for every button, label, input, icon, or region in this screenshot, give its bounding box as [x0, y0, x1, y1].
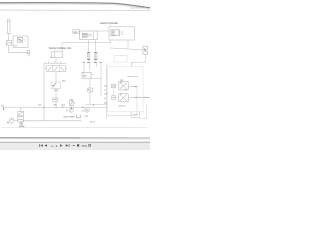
valve 1V3	[47, 66, 66, 72]
page top edge shadow	[0, 3, 150, 8]
clamp cylinder 1A2	[80, 31, 98, 40]
valve 0V1	[6, 41, 11, 46]
svg-text:1V5 12: 1V5 12	[119, 106, 127, 108]
wire	[89, 63, 91, 70]
swing cylinder 1A1	[52, 52, 63, 58]
wire	[110, 48, 144, 50]
pump 0P2	[10, 118, 15, 123]
svg-text:Swing unit: Swing unit	[127, 75, 137, 78]
label box 1A2	[73, 30, 79, 34]
svg-text:Drive advance: Drive advance	[137, 96, 150, 99]
junction dot	[93, 104, 94, 105]
wire	[145, 54, 147, 62]
junction dot	[70, 111, 71, 112]
motor 0M1	[85, 108, 90, 113]
check valve 1V8	[88, 40, 90, 63]
valve 1V2	[51, 82, 61, 89]
label box 1Z2	[114, 56, 127, 63]
svg-text:0M1 PUMP: 0M1 PUMP	[64, 116, 76, 118]
wire	[110, 40, 112, 43]
svg-text:0T1 b: 0T1 b	[90, 122, 96, 124]
svg-text:1V0: 1V0	[104, 94, 107, 96]
valve 1V5a	[119, 82, 128, 90]
wire	[100, 63, 102, 96]
svg-text:a1: a1	[104, 90, 106, 92]
svg-text:Swing Cylinder 1A1: Swing Cylinder 1A1	[49, 46, 72, 50]
wire	[55, 89, 57, 99]
tick at line start	[2, 108, 4, 111]
svg-text:75%: 75%	[81, 144, 87, 148]
port dashes	[82, 62, 85, 64]
wire	[130, 62, 132, 67]
check valve 0V1 symbol	[54, 105, 57, 106]
main pressure line P	[3, 107, 107, 109]
zoom glyphs	[73, 144, 91, 148]
wire	[139, 117, 146, 119]
wire	[136, 87, 138, 116]
wire	[44, 62, 66, 64]
wire	[107, 114, 137, 116]
svg-text:b1: b1	[104, 98, 106, 100]
port line B	[128, 96, 137, 98]
enclosure drive unit	[108, 67, 144, 112]
comp 1V1	[53, 98, 58, 101]
wire	[61, 43, 63, 52]
wire	[95, 63, 97, 66]
svg-text:hyd circuit titl: hyd circuit titl	[131, 6, 144, 9]
wire	[131, 61, 145, 63]
toolbar	[0, 142, 150, 150]
pager glyphs	[39, 144, 69, 148]
relief block 0V2	[13, 36, 28, 48]
wire	[9, 51, 29, 53]
wire	[83, 63, 85, 78]
svg-text:M: M	[7, 123, 9, 125]
junction dots	[43, 107, 44, 108]
svg-text:1Z2: 1Z2	[104, 86, 107, 88]
svg-text:1 2: 1 2	[121, 34, 124, 36]
svg-text:1A2: 1A2	[73, 31, 78, 34]
wire	[55, 72, 57, 82]
wire	[8, 34, 10, 41]
valve 1V7	[143, 46, 148, 54]
wire	[8, 45, 10, 52]
wire	[97, 30, 109, 32]
svg-text:M: M	[86, 109, 88, 112]
wire right mid bus	[106, 63, 108, 118]
port line A	[128, 86, 137, 88]
drain comp	[27, 50, 30, 53]
wire	[127, 40, 129, 49]
tank 0T1	[77, 115, 81, 118]
wire left bus	[43, 63, 45, 121]
wire	[85, 104, 107, 106]
comp 1S1	[89, 78, 91, 88]
pilot symbols	[111, 84, 115, 87]
svg-text:Clamp Cylinder: Clamp Cylinder	[100, 21, 118, 25]
wire	[62, 42, 111, 44]
valve 1V6	[82, 72, 91, 78]
pump 0P1	[69, 108, 73, 112]
frame top line	[0, 9, 150, 11]
note box U1	[109, 27, 135, 40]
svg-text:4T2: 4T2	[112, 35, 115, 37]
return line T	[23, 120, 82, 122]
wire	[55, 101, 57, 107]
pump group: filter 0Z1	[20, 108, 22, 112]
svg-text:1Z4: 1Z4	[104, 103, 107, 105]
box 1Z5	[131, 112, 139, 118]
check valve 1V9	[95, 40, 97, 63]
page bottom edge	[0, 137, 80, 139]
frame bottom line	[2, 126, 148, 128]
wire	[84, 77, 101, 79]
valve 1V5b	[119, 94, 128, 102]
accumulator 0Z1	[7, 20, 10, 34]
svg-text:6w: 6w	[1, 105, 4, 107]
